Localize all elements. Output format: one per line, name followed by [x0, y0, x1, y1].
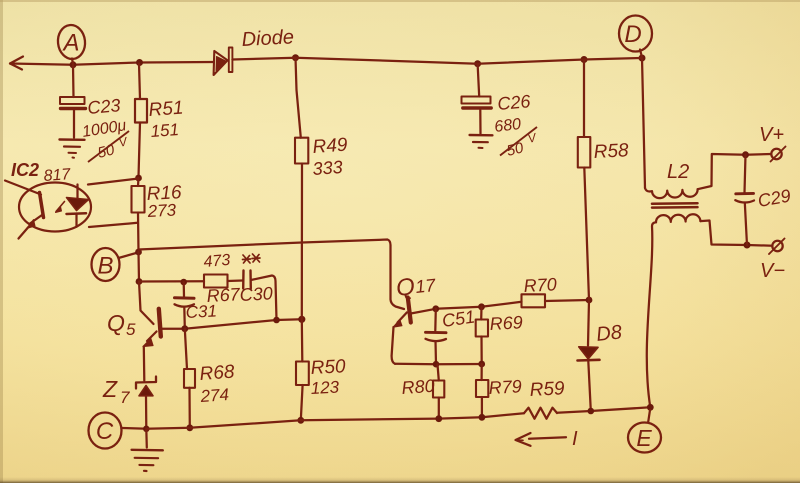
- svg-text:V−: V−: [760, 260, 785, 282]
- node junction R69 top: [478, 303, 485, 310]
- node C circle: [89, 413, 122, 449]
- wire R67 rail: [139, 280, 204, 282]
- label 50V slash: [88, 131, 129, 162]
- svg-text:Diode: Diode: [241, 26, 294, 51]
- node junction R51 top: [136, 59, 143, 66]
- svg-text:C31: C31: [185, 301, 217, 322]
- svg-text:274: 274: [199, 385, 230, 406]
- node junction C29 bottom: [744, 242, 751, 249]
- svg-text:Q: Q: [107, 310, 125, 336]
- wire Q17 emitter down: [392, 327, 395, 364]
- node junction B: [135, 249, 142, 256]
- resistor R80: [433, 364, 444, 418]
- input arrowhead left: [10, 57, 23, 70]
- current arrow I: [516, 433, 567, 446]
- node junction R58 top: [581, 56, 588, 63]
- svg-text:7: 7: [120, 388, 130, 407]
- transistor Q17: [393, 298, 411, 328]
- svg-text:C23: C23: [87, 95, 122, 118]
- svg-text:E: E: [636, 425, 652, 451]
- capacitor C23: [60, 65, 86, 138]
- node junction D: [639, 55, 646, 62]
- wire B rail down: [137, 252, 140, 282]
- node junction C51 top: [432, 305, 439, 312]
- node junction R68 bottom: [186, 424, 193, 431]
- resistor R51: [135, 64, 147, 178]
- wire C30 bend down to rail: [251, 276, 277, 320]
- wire node C tail: [122, 427, 144, 430]
- ground (C23): [60, 140, 85, 158]
- node junction C31 top: [180, 279, 187, 286]
- inductor L2 secondary winding: [656, 214, 700, 222]
- node A circle: [56, 24, 86, 61]
- diode LED inside opto: [56, 185, 89, 227]
- asterisks above C30: [243, 254, 261, 263]
- node junction R51/opto: [135, 175, 142, 182]
- capacitor C30: [243, 271, 251, 289]
- svg-text:R58: R58: [593, 140, 629, 163]
- zener Z7: [136, 377, 156, 429]
- wire Q17 lower rail: [395, 363, 482, 366]
- label 50V slash C26: [500, 127, 537, 156]
- wire bottom rail: [146, 413, 524, 429]
- wire node B tail: [119, 253, 139, 259]
- svg-text:R49: R49: [312, 135, 349, 158]
- svg-text:D: D: [624, 21, 641, 48]
- wire node A tail: [72, 59, 73, 65]
- node E circle: [628, 410, 661, 453]
- pin opto collector top-left: [5, 181, 41, 195]
- svg-text:817: 817: [43, 166, 72, 185]
- svg-text:D8: D8: [595, 321, 623, 346]
- capacitor C29: [735, 155, 754, 245]
- svg-text:R69: R69: [489, 312, 523, 334]
- pin opto emitter with arrow: [19, 215, 43, 239]
- node junction rail/R67: [136, 278, 143, 285]
- wire opto top to rail: [88, 179, 139, 185]
- svg-text:R70: R70: [523, 274, 557, 296]
- wire L2 secondary left down to E: [647, 222, 656, 407]
- svg-text:R79: R79: [488, 376, 522, 398]
- wire diode to C26 node: [232, 58, 642, 64]
- svg-text:C: C: [96, 418, 114, 445]
- diode symbol: [214, 51, 228, 75]
- svg-text:R68: R68: [199, 362, 236, 385]
- svg-text:Q: Q: [395, 273, 416, 302]
- svg-text:B: B: [97, 253, 113, 280]
- node junction C51 bottom: [433, 361, 440, 368]
- resistor R59 zigzag: [524, 408, 557, 419]
- wire opto bottom to rail: [89, 223, 138, 227]
- node junction R79 bottom: [479, 414, 486, 421]
- node junction R49/R50: [298, 316, 305, 323]
- wire Q5 collector rail: [161, 319, 302, 328]
- ground (node C): [132, 429, 163, 471]
- node junction R49 top: [292, 54, 299, 61]
- node junction D8 bottom: [588, 408, 595, 415]
- svg-text:R51: R51: [148, 98, 184, 121]
- node D circle: [619, 16, 652, 52]
- svg-text:C26: C26: [497, 91, 533, 114]
- svg-text:C30: C30: [239, 283, 273, 305]
- wire main top rail: [10, 62, 214, 65]
- resistor R49: [295, 58, 308, 320]
- terminal V+: [771, 147, 786, 162]
- svg-text:R50: R50: [310, 356, 346, 379]
- wire L2 primary to V+: [698, 154, 771, 189]
- wire Q17 collector rail: [411, 302, 522, 314]
- resistor R68: [184, 329, 195, 428]
- node junction R80 bottom: [435, 415, 442, 422]
- svg-text:A: A: [61, 30, 79, 57]
- capacitor C26: [462, 64, 492, 134]
- svg-text:I: I: [572, 428, 578, 450]
- node junction C26 top: [474, 60, 481, 67]
- node junction C29 top: [742, 151, 749, 158]
- wire R67 to C30: [228, 279, 243, 282]
- node junction R58/R70/D8: [586, 297, 593, 304]
- transistor opto phototransistor bar: [40, 193, 44, 218]
- inductor L2 core: [652, 203, 698, 207]
- op-amp U1 opto IC2 body: [19, 183, 91, 232]
- svg-text:473: 473: [203, 252, 231, 271]
- resistor R67: [204, 275, 228, 288]
- wire node D tail: [640, 50, 642, 57]
- wire Q5 emitter to Z7: [143, 347, 146, 381]
- svg-text:R59: R59: [529, 378, 565, 401]
- resistor R69: [476, 307, 488, 364]
- resistor R70: [522, 294, 590, 307]
- terminal V-: [769, 239, 785, 255]
- svg-text:151: 151: [150, 120, 180, 141]
- svg-text:V+: V+: [759, 124, 784, 146]
- wire R59 to E: [557, 407, 650, 413]
- svg-text:680: 680: [493, 116, 522, 136]
- resistor R50: [296, 319, 309, 420]
- svg-text:IC2: IC2: [11, 160, 39, 180]
- wire D node down to L2: [642, 58, 645, 188]
- capacitor C51: [426, 309, 447, 364]
- node junction E top: [647, 404, 654, 411]
- resistor R16: [132, 178, 145, 252]
- node junction C/ground: [143, 426, 150, 433]
- diode D8: [578, 300, 600, 411]
- ground (C26): [470, 135, 493, 148]
- resistor R58: [578, 60, 591, 301]
- node junction R50 bottom: [297, 417, 304, 424]
- node B circle: [92, 248, 120, 281]
- svg-text:5: 5: [126, 320, 136, 339]
- node junction A: [70, 61, 77, 68]
- node junction R69 bottom: [478, 361, 485, 368]
- capacitor C31: [175, 282, 195, 328]
- transistor Q5: [139, 282, 161, 347]
- node junction C31 bottom / R68: [181, 325, 188, 332]
- svg-text:R80: R80: [401, 376, 435, 398]
- wire B to Q17 base: [139, 240, 405, 310]
- node junction C30 branch bottom: [273, 317, 280, 324]
- svg-text:333: 333: [312, 157, 343, 179]
- svg-text:L2: L2: [667, 161, 689, 183]
- svg-text:123: 123: [310, 378, 340, 398]
- wire L2 secondary to V-: [700, 221, 772, 246]
- svg-text:273: 273: [146, 201, 177, 222]
- svg-text:17: 17: [414, 275, 437, 297]
- svg-text:Z: Z: [102, 376, 118, 402]
- inductor L2 primary winding: [645, 188, 698, 198]
- resistor R79: [476, 364, 488, 417]
